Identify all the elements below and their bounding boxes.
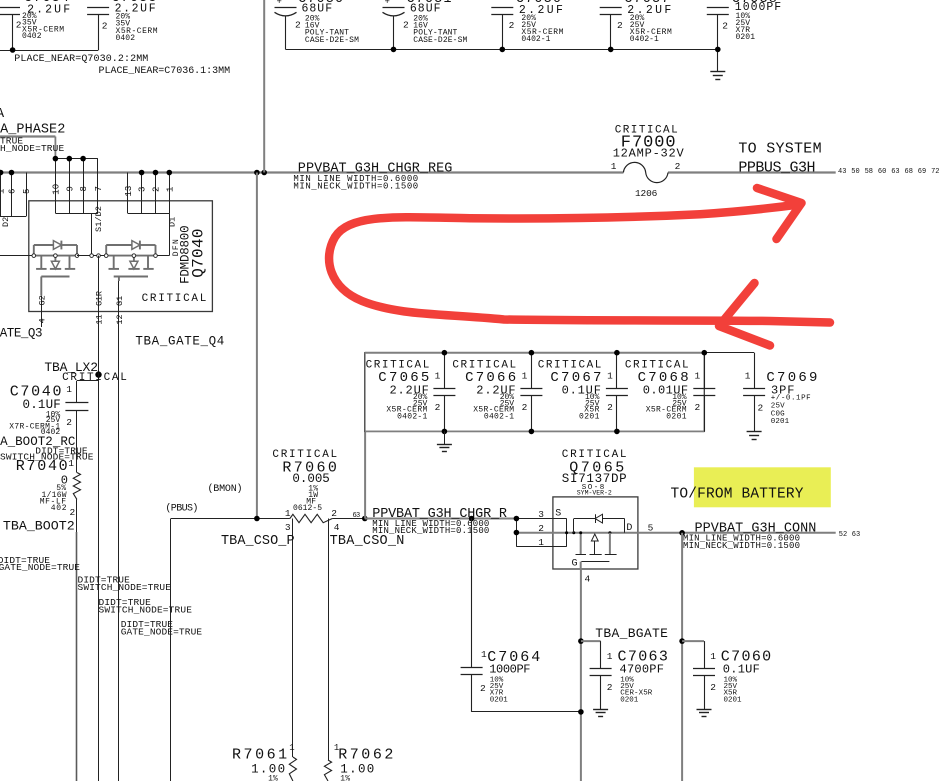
svg-text:TBA_GATE_Q3: TBA_GATE_Q3	[0, 326, 43, 340]
svg-text:C0G: C0G	[771, 410, 785, 418]
svg-text:2: 2	[509, 20, 515, 31]
svg-text:SWITCH_NODE=TRUE: SWITCH_NODE=TRUE	[0, 452, 94, 463]
label CRITICAL Q7065	[562, 449, 627, 461]
capacitor C7060 0.1UF	[682, 641, 771, 709]
svg-text:CASE-D2E-SM: CASE-D2E-SM	[413, 36, 467, 45]
svg-text:6: 6	[7, 189, 17, 194]
transistor Q7040 FET B symbol	[77, 241, 156, 281]
svg-text:4: 4	[37, 318, 47, 323]
svg-text:63: 63	[852, 531, 860, 539]
svg-text:1: 1	[0, 189, 6, 194]
capacitor C7040 0.1UF	[9, 381, 98, 473]
svg-text:0201: 0201	[724, 696, 742, 704]
junction C7038 bottom	[715, 47, 721, 53]
svg-text:1%: 1%	[268, 775, 278, 781]
capacitor (2.2UF top-left #2)	[87, 0, 158, 50]
svg-text:72: 72	[931, 168, 939, 176]
svg-text:1: 1	[289, 743, 294, 753]
svg-text:+: +	[277, 0, 282, 7]
label SWITCH_NODE=TRUE (G1R line)	[78, 582, 172, 593]
svg-text:68: 68	[905, 168, 913, 176]
svg-text:60: 60	[878, 168, 886, 176]
svg-text:G1: G1	[115, 296, 125, 306]
capacitor C7068 0.01UF	[625, 353, 715, 432]
svg-text:1: 1	[66, 384, 72, 395]
resistor R7061 1.00	[232, 743, 297, 781]
svg-text:1: 1	[695, 371, 701, 382]
svg-text:2: 2	[331, 508, 337, 519]
resistor R7040 0	[16, 458, 81, 518]
svg-text:GATE_NODE=TRUE: GATE_NODE=TRUE	[121, 627, 203, 638]
svg-text:S1/D2: S1/D2	[94, 206, 104, 232]
svg-text:(PBUS): (PBUS)	[165, 503, 198, 515]
wire box top to C7069	[704, 352, 754, 354]
junction pin3	[514, 516, 520, 522]
junction TBA_PHASE2 pins	[53, 156, 86, 162]
ground C7063	[593, 710, 608, 717]
svg-text:8: 8	[79, 186, 89, 191]
svg-text:52: 52	[839, 531, 847, 539]
ground C7060	[697, 710, 712, 717]
svg-text:1: 1	[607, 651, 613, 662]
wire TBA_CSO_N	[328, 519, 330, 761]
svg-text:SWITCH_NODE=TRUE: SWITCH_NODE=TRUE	[0, 143, 64, 154]
net label TBA_CSO_P	[221, 534, 295, 549]
label DIDT=TRUE R7040	[35, 446, 88, 457]
svg-text:2: 2	[295, 20, 301, 31]
svg-text:CRITICAL: CRITICAL	[452, 360, 516, 372]
label MIN_NECK_WIDTH=0.1500 (3)	[683, 541, 800, 551]
capacitor C7063 4700PF	[581, 641, 668, 709]
svg-text:0201: 0201	[736, 33, 756, 42]
net label PPVBAT_G3H_CHGR_REG	[298, 161, 453, 176]
net label TBA_BOOT2	[3, 519, 75, 534]
svg-text:2: 2	[607, 682, 613, 693]
junctions cap row bottom	[442, 429, 620, 435]
svg-text:58: 58	[865, 168, 873, 176]
label 63 page ref	[353, 512, 361, 520]
transistor Q7040 FDMD8800 outline box	[29, 201, 213, 312]
wire top-left cap bottoms	[0, 50, 98, 52]
svg-text:TBA_GATE_Q4: TBA_GATE_Q4	[135, 334, 224, 348]
label DIDT=TRUE (PBUS line) 3	[121, 619, 174, 630]
svg-text:G: G	[572, 559, 578, 570]
svg-text:1: 1	[165, 187, 175, 192]
svg-text:CRITICAL: CRITICAL	[142, 293, 207, 305]
node S1/D2 circles	[90, 254, 101, 258]
svg-text:+/-0.1PF: +/-0.1PF	[771, 395, 811, 403]
net label S1/D2 rotated	[94, 206, 104, 232]
capacitor C7031 68UF	[383, 0, 468, 49]
label (BMON)	[208, 483, 243, 495]
ground C7069	[747, 432, 762, 440]
svg-text:2: 2	[66, 417, 72, 428]
svg-text:1: 1	[481, 649, 487, 660]
svg-text:1: 1	[611, 161, 617, 172]
capacitor C7038 1000PF	[707, 0, 781, 72]
label PLACE_NEAR=C7036.1:3MM	[99, 66, 231, 77]
junction pin6 on bus	[0, 170, 14, 176]
label DIDT=TRUE (G1R line)	[78, 575, 131, 586]
wire top cap bank bottoms	[286, 49, 718, 51]
svg-text:SWITCH_NODE=TRUE: SWITCH_NODE=TRUE	[78, 582, 172, 593]
page refs 52 63	[839, 531, 860, 539]
junction pin2	[514, 530, 520, 536]
svg-text:2: 2	[538, 523, 544, 534]
svg-text:G2: G2	[37, 295, 47, 305]
junction R7060 to cap bank	[362, 516, 368, 522]
svg-text:CASE-D2E-SM: CASE-D2E-SM	[305, 36, 359, 45]
svg-text:1: 1	[435, 371, 441, 382]
svg-text:SWITCH_NODE=TRUE: SWITCH_NODE=TRUE	[99, 604, 193, 615]
svg-text:2: 2	[70, 507, 76, 518]
svg-text:2: 2	[16, 20, 22, 31]
wire TBA_BOOT2	[76, 499, 78, 781]
red arrowhead left	[719, 283, 770, 346]
svg-text:63: 63	[353, 512, 361, 520]
junction top-left	[10, 47, 16, 53]
label DIDT=TRUE (bottom-left cut)	[0, 555, 50, 566]
wire Q7065 gate down	[580, 569, 582, 781]
label SWITCH_NODE=TRUE (cut)	[0, 143, 64, 154]
svg-text:2: 2	[403, 20, 409, 31]
label DFN rotated	[172, 239, 181, 256]
pin group D1 (pins 13,3,2,1)	[124, 173, 176, 214]
capacitor group box C7065-C7068	[365, 353, 705, 432]
wire gate G2 / pin 4	[37, 295, 47, 327]
capacitor C7064 1000PF	[461, 519, 581, 712]
svg-text:1206: 1206	[635, 188, 658, 199]
svg-text:S: S	[555, 509, 561, 520]
ground top cap bank	[710, 72, 725, 80]
svg-text:63: 63	[891, 168, 899, 176]
svg-text:0201: 0201	[666, 412, 687, 421]
svg-text:CRITICAL: CRITICAL	[62, 372, 127, 384]
net label PPVBAT_G3H_CHGR_R	[372, 507, 507, 522]
svg-text:7: 7	[94, 186, 104, 191]
svg-text:+: +	[385, 0, 390, 7]
svg-text:2: 2	[675, 161, 681, 172]
svg-text:2: 2	[722, 21, 728, 32]
svg-text:TO/FROM BATTERY: TO/FROM BATTERY	[671, 487, 804, 503]
svg-text:Q7040: Q7040	[190, 228, 208, 277]
capacitor (2.2UF top-left #1)	[0, 0, 70, 50]
svg-text:1: 1	[522, 371, 528, 382]
capacitor C7069 3PF	[743, 353, 817, 432]
svg-text:1: 1	[285, 508, 291, 519]
FET A node circles	[32, 254, 79, 258]
highlight TO/FROM BATTERY	[694, 467, 831, 507]
label CRITICAL C7040	[62, 372, 127, 384]
svg-text:2: 2	[522, 402, 528, 413]
svg-text:G1R: G1R	[95, 291, 105, 306]
junction TBA_BGATE	[578, 638, 584, 644]
transistor Q7065 SI7137DP	[553, 460, 638, 570]
wire PPBUS_G3H after fuse	[668, 171, 836, 173]
pin group S1/D2 (pins 10,9,8,7)	[51, 159, 104, 214]
svg-text:50: 50	[851, 168, 859, 176]
net label TBA_GATE_Q4	[135, 334, 224, 348]
svg-text:0402-1: 0402-1	[521, 35, 550, 44]
net TBA_PHASE2	[0, 123, 65, 159]
svg-text:4: 4	[334, 522, 340, 533]
svg-text:PLACE_NEAR=Q7030.2:2MM: PLACE_NEAR=Q7030.2:2MM	[14, 54, 148, 65]
page reference numbers PPBUS_G3H	[838, 168, 940, 176]
junction C7060 branch	[679, 638, 685, 644]
svg-text:CRITICAL: CRITICAL	[625, 360, 689, 372]
resistor R7060 0.005	[282, 460, 339, 534]
svg-text:4700PF: 4700PF	[620, 663, 664, 677]
svg-text:12AMP-32V: 12AMP-32V	[613, 147, 685, 161]
svg-text:0.1UF: 0.1UF	[723, 663, 760, 677]
resistor R7062 1.00	[324, 743, 393, 781]
label SWITCH_NODE=TRUE R7040	[0, 452, 94, 463]
svg-text:D1: D1	[167, 217, 177, 227]
svg-text:69: 69	[918, 168, 926, 176]
capacitor C7030 68UF	[275, 0, 360, 49]
wire D1 to FET drain	[156, 213, 170, 255]
svg-text:3: 3	[138, 187, 148, 192]
capacitor C7037 2.2UF	[600, 0, 672, 49]
capacitor C7065 2.2UF	[366, 353, 456, 432]
label CRITICAL Q7040	[142, 293, 207, 305]
label MIN_LINE_WIDTH=0.6000 (3)	[683, 534, 800, 544]
svg-text:1000PF: 1000PF	[489, 663, 530, 677]
svg-text:2: 2	[480, 683, 486, 694]
net label D1 rotated	[167, 217, 177, 227]
net label PPBUS_G3H	[738, 160, 815, 177]
wire PPVBAT_G3H_CHGR_R	[365, 518, 517, 520]
svg-text:0402-1: 0402-1	[630, 35, 659, 44]
svg-text:MIN_NECK_WIDTH=0.1500: MIN_NECK_WIDTH=0.1500	[293, 181, 418, 191]
net label PPVBAT_G3H_CONN	[695, 521, 817, 536]
svg-text:43: 43	[838, 168, 846, 176]
svg-text:1: 1	[538, 537, 544, 548]
wire vertical to top caps	[263, 0, 265, 173]
FET B node circles	[104, 254, 157, 258]
junctions cap row top	[442, 350, 707, 356]
net TBA_LX2 junction	[44, 360, 101, 378]
svg-text:2: 2	[695, 402, 701, 413]
wire source loop pins 1,2,3	[516, 519, 638, 547]
net label TBA_CSO_N	[330, 534, 405, 549]
svg-text:2: 2	[758, 403, 764, 414]
svg-text:12: 12	[115, 314, 125, 324]
svg-text:CRITICAL: CRITICAL	[366, 360, 430, 372]
wire battery conn down	[681, 533, 683, 781]
label MIN LINE WIDTH=0.6000	[293, 174, 418, 184]
svg-text:0201: 0201	[771, 418, 790, 426]
label MIN LINE WIDTH=0.6000 (2)	[372, 519, 489, 529]
junction bus to BMON	[254, 170, 267, 176]
label PLACE_NEAR=Q7030.2:2MM	[14, 54, 148, 65]
svg-text:0201: 0201	[490, 696, 508, 704]
svg-text:CRITICAL: CRITICAL	[538, 360, 602, 372]
svg-text:4: 4	[585, 574, 591, 585]
wire R7060 pin2 to junction	[332, 518, 365, 520]
svg-text:402: 402	[51, 504, 67, 513]
svg-text:TBA_CSO_N: TBA_CSO_N	[330, 534, 405, 549]
label FDMD8800 rotated	[179, 225, 193, 284]
net label D2 rotated	[1, 217, 11, 227]
svg-text:TBA_CSO_P: TBA_CSO_P	[221, 534, 295, 549]
label MIN_NECK_WIDTH=0.1500	[293, 181, 418, 191]
svg-text:0201: 0201	[620, 696, 638, 704]
net label TBA_BOOT2_RC	[0, 435, 75, 449]
svg-text:0402-1: 0402-1	[397, 412, 427, 421]
wire gate G1 / pin 12	[115, 281, 125, 781]
svg-text:2: 2	[607, 402, 613, 413]
junction CONN to battery drop	[679, 530, 685, 536]
wire cap bank to CHGR_R	[364, 431, 366, 519]
label DIDT=TRUE (cut)	[0, 136, 23, 147]
svg-text:1: 1	[607, 371, 613, 382]
svg-text:25V: 25V	[771, 403, 785, 411]
junction C7031 bottom	[391, 47, 397, 53]
svg-text:GATE_NODE=TRUE: GATE_NODE=TRUE	[0, 562, 80, 573]
label (PBUS)	[165, 503, 198, 515]
svg-text:PLACE_NEAR=C7036.1:3MM: PLACE_NEAR=C7036.1:3MM	[99, 66, 231, 77]
svg-text:0402: 0402	[22, 32, 42, 41]
capacitor C7067 0.1UF	[538, 353, 628, 432]
ground cap row	[437, 431, 452, 451]
capacitor C7066 2.2UF	[452, 353, 542, 432]
svg-text:1: 1	[745, 371, 751, 382]
wire S1/D2 bar to FET node	[91, 213, 93, 256]
junction CHGR_R to C7064	[469, 516, 475, 522]
label Q7040 rotated	[190, 228, 208, 277]
net label TBA_BGATE	[595, 626, 668, 641]
label cut-off A	[0, 107, 5, 122]
svg-text:1: 1	[68, 458, 74, 469]
svg-text:SYM-VER-2: SYM-VER-2	[577, 490, 612, 497]
svg-text:9: 9	[65, 186, 75, 191]
svg-text:2: 2	[152, 187, 162, 192]
capacitor C7036 2.2UF	[491, 0, 563, 49]
net label TBA_GATE_Q3	[0, 326, 43, 340]
svg-text:D2: D2	[1, 217, 11, 227]
svg-text:1: 1	[710, 651, 716, 662]
junction C7037 bottom	[608, 47, 614, 53]
label GATE_NODE=TRUE (PBUS line) 3	[121, 627, 203, 638]
svg-text:TBA_BGATE: TBA_BGATE	[595, 626, 668, 641]
svg-text:0402-1: 0402-1	[484, 412, 514, 421]
net label TO SYSTEM	[738, 141, 821, 158]
wire PBUS	[171, 519, 290, 781]
net label TO/FROM BATTERY	[671, 487, 804, 503]
wire PPVBAT_G3H_CONN	[638, 532, 836, 534]
svg-text:2: 2	[435, 402, 441, 413]
junction C7064 to gate line	[578, 709, 584, 715]
wire gate G1R / pin 11	[95, 256, 105, 781]
svg-text:PPBUS_G3H: PPBUS_G3H	[738, 160, 815, 177]
svg-text:1%: 1%	[340, 775, 350, 781]
junction BMON to R7060 wire	[254, 516, 260, 522]
pin labels Q7065	[538, 509, 653, 585]
svg-text:3: 3	[538, 509, 544, 520]
wire BMON vertical	[256, 173, 258, 519]
pin group D2 (pins 6,5)	[0, 173, 32, 217]
svg-text:13: 13	[124, 186, 134, 197]
svg-text:11: 11	[95, 314, 105, 324]
svg-text:3: 3	[285, 522, 291, 533]
wire TBA_CSO_P	[292, 519, 294, 758]
label DIDT=TRUE (G1 line) 2	[99, 597, 152, 608]
red arrowhead right	[757, 188, 802, 239]
svg-text:R7062: R7062	[338, 747, 393, 764]
svg-text:5: 5	[22, 189, 32, 194]
svg-text:R7061: R7061	[232, 747, 287, 764]
svg-text:2: 2	[102, 21, 108, 32]
svg-text:0201: 0201	[579, 412, 600, 421]
svg-text:TBA_BOOT2: TBA_BOOT2	[3, 519, 75, 534]
label MIN_NECK_WIDTH=0.1500 (2)	[372, 526, 489, 536]
svg-text:10: 10	[51, 184, 61, 195]
Q7065 FET symbol	[565, 514, 625, 569]
svg-text:2: 2	[617, 20, 623, 31]
svg-text:0402: 0402	[116, 34, 136, 43]
label SWITCH_NODE=TRUE (G1 line) 2	[99, 604, 193, 615]
label GATE_NODE=TRUE (bottom-left cut)	[0, 562, 80, 573]
fuse F7000 12AMP-32V	[611, 124, 685, 199]
svg-text:TO SYSTEM: TO SYSTEM	[738, 141, 821, 158]
red annotation loop stroke	[329, 205, 830, 323]
svg-text:0612-5: 0612-5	[293, 504, 322, 513]
wire PPVBAT_G3H_CHGR_REG bus	[0, 171, 623, 173]
junction C7036 bottom	[500, 47, 506, 53]
label CRITICAL R7060	[272, 449, 337, 461]
svg-text:MIN_NECK_WIDTH=0.1500: MIN_NECK_WIDTH=0.1500	[683, 541, 800, 551]
transistor Q7040 FET A symbol	[0, 241, 77, 296]
svg-text:(BMON): (BMON)	[208, 483, 243, 495]
junction pins 3,2,1 on bus	[139, 170, 172, 176]
svg-text:2: 2	[710, 682, 716, 693]
svg-text:D: D	[626, 523, 632, 534]
